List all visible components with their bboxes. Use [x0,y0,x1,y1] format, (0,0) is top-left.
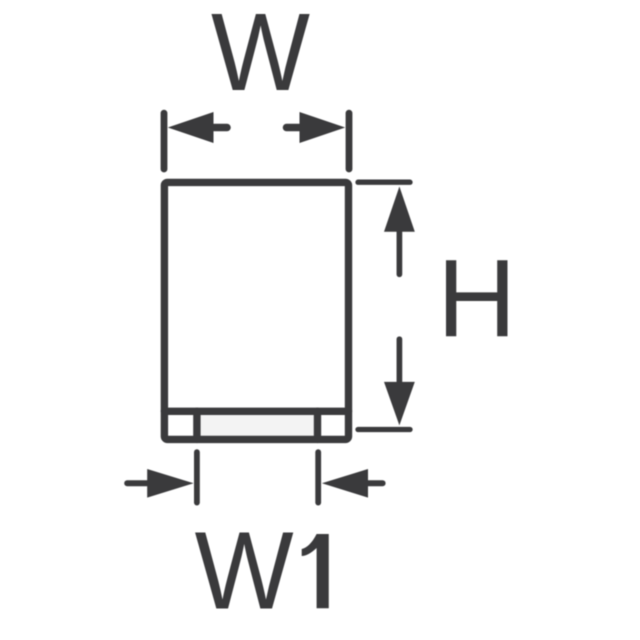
svg-text:W: W [211,0,310,114]
svg-text:W: W [195,509,294,632]
svg-text:H: H [437,238,516,361]
